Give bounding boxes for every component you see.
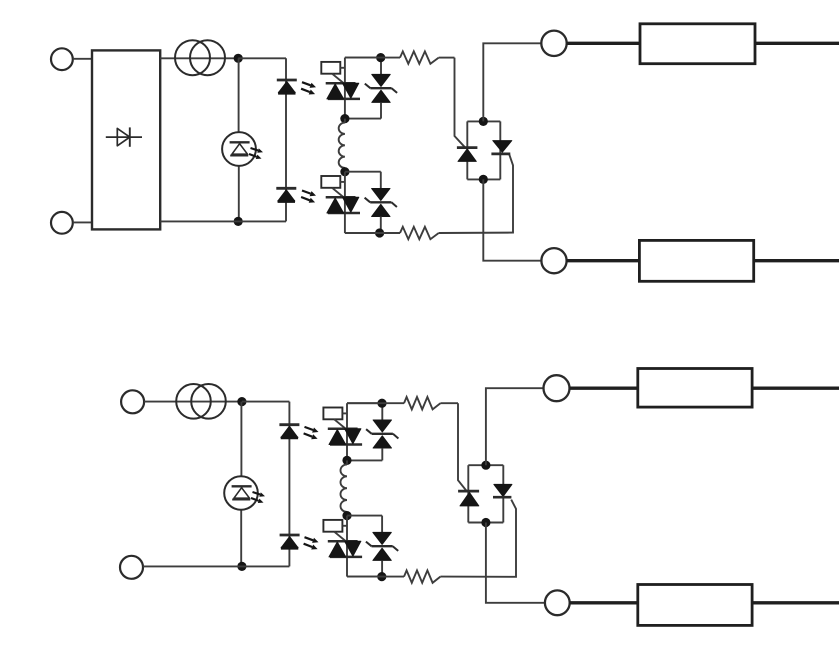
wire [486,388,544,465]
LED D7 [280,535,300,548]
wire [345,118,381,120]
wire [345,171,381,173]
wire [345,232,400,234]
wire [143,565,289,567]
wire [285,58,287,221]
light arrows [301,82,316,94]
wire [345,57,381,59]
load block 1 [640,24,755,64]
wire [347,515,382,517]
light arrows [301,191,316,203]
wire [347,576,382,578]
load block 4 [638,585,752,626]
resistor R1 [400,51,439,63]
LED D4 [276,188,296,201]
wire [346,516,348,577]
node [342,511,351,520]
light arrows [304,427,319,439]
wire [440,402,458,404]
zener pair U3 [366,420,398,448]
wire [347,576,404,578]
terminal L4 [545,590,570,615]
wire [160,220,286,222]
load block 3 [638,369,752,408]
wire [144,401,242,403]
terminal A1+ [51,48,73,70]
wire [440,500,516,577]
transformer T2 [176,384,226,419]
LED D3 [277,80,297,93]
light arrows [304,537,319,549]
node [376,53,385,62]
wire [567,259,640,262]
wire [381,560,383,576]
wire [483,43,541,121]
thyristor Q3 [458,491,479,506]
wire [567,42,640,45]
wire [752,387,839,390]
wire [381,516,383,533]
wire [346,403,348,460]
wire [238,58,240,221]
node [479,117,488,126]
terminal A1- [51,212,73,234]
wire [486,523,545,603]
node [375,228,384,237]
wire [73,221,92,223]
wire [458,403,467,491]
LED D6 [279,425,299,438]
zener pair U2 [365,189,397,217]
resistor R3 [404,397,440,409]
phototriac U2 [326,197,360,213]
zener pair U1 [365,74,397,102]
indicator LED D5 [224,476,258,510]
node [340,167,349,176]
inductor L1 [339,119,345,172]
wire [347,402,404,404]
wire [238,57,286,59]
bridge rectifier box [92,50,160,229]
phototriac U3 [328,429,362,445]
wire [455,58,466,148]
thyristor pair frame [467,121,500,179]
wire [240,402,242,567]
wire [345,232,381,234]
phototriac U4 gate box [323,520,347,542]
node [377,572,386,581]
terminal B1- [120,556,143,579]
terminal L3 [544,375,570,401]
wire [381,448,383,460]
wire [344,58,346,119]
wire [381,403,383,420]
load block 2 [639,240,753,281]
terminal B1+ [121,390,144,413]
wire [380,58,382,75]
node [479,175,488,184]
phototriac U3 gate box [323,408,347,430]
terminal L2 [541,248,566,273]
wire [754,259,839,262]
node [377,399,386,408]
thyristor Q4 [493,484,512,497]
thyristor pair frame [468,465,503,522]
inductor L2 [340,460,347,515]
wire [380,102,382,118]
indicator LED D2 [222,132,256,166]
terminal L1 [541,31,566,56]
node [481,461,490,470]
wire [288,402,290,567]
wire [344,172,346,233]
wire [570,387,638,390]
thyristor Q1 [457,148,478,162]
wire [347,459,382,461]
wire [570,601,638,604]
wire [73,58,92,60]
wire [345,57,400,59]
node [481,518,490,527]
node [237,562,246,571]
phototriac U2 gate box [321,176,345,198]
phototriac U4 [328,541,362,557]
light arrows [249,148,263,159]
thyristor Q2 [491,141,511,154]
wire [755,42,839,45]
wire [439,155,513,233]
phototriac U1 [326,83,360,99]
resistor R2 [400,227,439,239]
wire [483,179,541,260]
resistor R4 [404,570,440,582]
wire [347,402,382,404]
wire [380,172,382,189]
wire [242,401,290,403]
node [237,397,246,406]
node [342,456,351,465]
wire [752,601,839,604]
wire [160,57,238,59]
phototriac U1 gate box [321,62,345,84]
light arrows [251,492,265,503]
zener pair U4 [366,532,398,560]
node [234,217,243,226]
wire [439,57,455,59]
node [234,54,243,63]
diode D1 [106,127,142,146]
transformer T1 [175,40,225,75]
wire [380,217,382,234]
node [340,114,349,123]
